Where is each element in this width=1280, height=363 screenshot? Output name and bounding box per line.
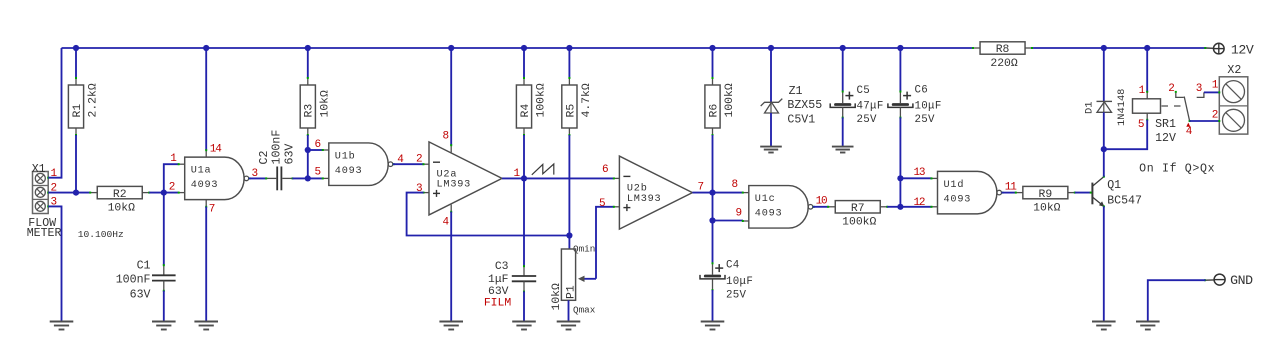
op-amp/comparator U2a LM393: [423, 142, 503, 215]
sawtooth waveform symbol: [532, 164, 554, 175]
svg-text:5: 5: [599, 198, 605, 210]
ground (C5): [832, 147, 854, 153]
wire rail to R4: [523, 48, 525, 78]
ground (Z1): [760, 147, 782, 153]
junction R3 top on rail: [305, 45, 311, 51]
junction R3/U1b pin6: [305, 147, 311, 153]
svg-text:R5: R5: [565, 104, 577, 118]
wire rail to R5: [568, 48, 570, 78]
svg-text:100kΩ: 100kΩ: [842, 217, 876, 229]
wire R6 bottom to node C and node D: [712, 135, 714, 221]
junction R6 top on rail: [709, 45, 715, 51]
svg-text:U1b: U1b: [335, 151, 356, 163]
junction node D (U1c pin9/C4): [709, 217, 715, 223]
wire rail to U2a pin8 (V+): [450, 48, 452, 145]
svg-text:7: 7: [209, 203, 215, 215]
ground (U2a pin4): [439, 322, 463, 330]
wire U1a output to C2: [249, 177, 267, 179]
wire collector node to Q1 collector: [1103, 149, 1105, 176]
svg-text:25V: 25V: [726, 290, 747, 302]
svg-text:2: 2: [1212, 109, 1218, 121]
svg-text:C5V1: C5V1: [787, 114, 815, 127]
svg-text:220Ω: 220Ω: [990, 58, 1018, 70]
svg-text:5: 5: [315, 167, 321, 179]
svg-text:12V: 12V: [1155, 132, 1176, 145]
svg-text:9: 9: [736, 207, 742, 219]
svg-text:R9: R9: [1039, 189, 1053, 201]
wire contact pin3 to X2 pin1: [1204, 91, 1219, 93]
capacitor C5 47uF 25V (electrolytic): [830, 85, 883, 126]
zener diode Z1 BZX55 C5V1: [761, 85, 823, 126]
wire C4 top pin stub: [712, 264, 714, 275]
svg-text:13: 13: [914, 167, 925, 179]
svg-text:2: 2: [1168, 83, 1174, 95]
op-amp/comparator U2b LM393: [613, 156, 693, 229]
wire U2a pin8 stub: [450, 145, 452, 152]
svg-text:BC547: BC547: [1107, 195, 1142, 208]
capacitor C6 10uF 25V (electrolytic): [888, 84, 942, 126]
wire SR1 pin5 to collector node: [1104, 120, 1147, 150]
svg-text:Q1: Q1: [1107, 179, 1121, 192]
wire +12V rail (right section, R8 to 12V terminal): [1032, 47, 1206, 49]
potentiometer P1 10k: [551, 249, 596, 311]
junction SR1 pin1 on rail: [1144, 45, 1150, 51]
svg-text:4093: 4093: [191, 180, 219, 191]
svg-text:25V: 25V: [857, 114, 878, 126]
wire C2 to U1b node: [292, 177, 323, 179]
wire C6 top pin stub: [899, 91, 901, 103]
svg-text:2.2kΩ: 2.2kΩ: [88, 83, 100, 117]
wire U2a pin3 feedback to Qmin node: [407, 193, 570, 236]
junction D1 top on rail: [1101, 45, 1107, 51]
capacitor C2 100nF 63V: [258, 130, 297, 191]
wire GND terminal to ground: [1148, 280, 1206, 321]
wire rail to SR1 coil: [1146, 48, 1148, 92]
connector X1 (FLOW METER): [33, 172, 50, 214]
svg-text:U1c: U1c: [755, 194, 776, 205]
wire C3 bottom pin stub: [523, 281, 525, 291]
svg-text:2: 2: [416, 153, 422, 165]
NAND gate U1b 4093: [322, 143, 395, 186]
wire C5 top pin stub: [842, 91, 844, 103]
ground (GND terminal): [1136, 322, 1160, 330]
NAND gate U1d 4093: [931, 171, 1004, 214]
svg-text:X1: X1: [32, 163, 46, 176]
svg-text:4.7kΩ: 4.7kΩ: [581, 83, 593, 117]
wire U1d output to R9: [1002, 192, 1016, 194]
junction U1a pin14 on rail: [203, 45, 209, 51]
wire C3 top pin stub: [523, 266, 525, 276]
wire +5V rail (left section, from X1 pin 1 riser to R8): [62, 47, 974, 49]
wire Z1 to ground: [770, 113, 772, 146]
wire U2a pin4 stub: [450, 205, 452, 212]
wire R4 bottom to node B: [523, 135, 525, 178]
capacitor C3 1uF 63V FILM: [484, 261, 536, 310]
svg-text:10kΩ: 10kΩ: [319, 90, 331, 118]
ground (P1): [557, 322, 581, 330]
svg-text:FILM: FILM: [484, 298, 512, 310]
svg-text:Qmax: Qmax: [573, 305, 596, 316]
wire rail to U1a pin14: [205, 48, 207, 150]
wire C1 bottom pin stub: [163, 281, 165, 291]
diode D1 1N4148: [1084, 89, 1129, 126]
svg-text:4093: 4093: [335, 166, 363, 177]
svg-text:12: 12: [914, 197, 925, 209]
svg-text:4093: 4093: [755, 209, 783, 220]
resistor R4 100k: [516, 77, 547, 136]
svg-text:C4: C4: [726, 260, 740, 272]
resistor R2 10k: [89, 186, 150, 214]
ground (C3): [512, 322, 536, 330]
svg-text:R4: R4: [520, 104, 532, 118]
svg-text:100nF: 100nF: [271, 130, 284, 165]
junction R4 top on rail: [521, 45, 527, 51]
wire R7 to node E: [887, 206, 900, 208]
junction node A (R2/C1/U1a pins): [161, 190, 167, 196]
wire rail to C5: [842, 48, 844, 91]
wire U1a pin14 stub: [205, 150, 207, 157]
wire X1 pin2 to R2/junction: [48, 192, 90, 194]
terminal +12V: [1204, 42, 1254, 57]
wire node D down to C4: [712, 221, 714, 264]
wire U1c output to R7: [813, 206, 829, 208]
wire node A down to C1: [163, 193, 165, 266]
svg-text:8: 8: [732, 179, 738, 191]
junction R1 top on rail: [73, 45, 79, 51]
wire R2 right to node A: [149, 192, 179, 194]
svg-text:2: 2: [169, 181, 175, 193]
terminal GND: [1204, 273, 1253, 288]
ground (C1): [152, 322, 176, 330]
svg-text:10μF: 10μF: [726, 276, 753, 288]
wire rail to D1: [1103, 48, 1105, 101]
junction C5 top on rail: [840, 45, 846, 51]
svg-text:R6: R6: [708, 104, 720, 118]
svg-text:P1: P1: [566, 285, 578, 299]
svg-text:10kΩ: 10kΩ: [551, 283, 563, 311]
junction node E (R7/U1d pin12): [897, 204, 903, 210]
junction node B (U2a out/R4/C3): [521, 175, 527, 181]
junction C6 top on rail: [897, 45, 903, 51]
relay contact SR1 (SPST): [1162, 91, 1204, 122]
wire U2a output to node B: [502, 177, 614, 179]
junction R5 top on rail: [566, 45, 572, 51]
wire node A up to U1a pin1: [164, 164, 179, 192]
svg-text:R8: R8: [996, 44, 1010, 56]
svg-text:Qmin: Qmin: [573, 244, 595, 255]
wire junction to U1d pin13: [900, 177, 931, 179]
svg-text:10: 10: [816, 196, 827, 208]
svg-text:6: 6: [315, 139, 321, 151]
wire X1 pin3 to ground: [48, 206, 61, 321]
wire C6 down through node E rows: [899, 117, 901, 206]
ground (Q1 emitter): [1092, 322, 1116, 330]
svg-text:C2: C2: [258, 151, 271, 165]
wire C1 top pin stub: [163, 265, 165, 275]
resistor R5 4.7k: [562, 77, 593, 136]
svg-text:U1a: U1a: [191, 166, 212, 177]
svg-text:12V: 12V: [1231, 42, 1254, 57]
wire C4 bottom pin stub: [712, 279, 714, 290]
wire C4 to ground: [712, 290, 714, 322]
svg-text:6: 6: [602, 164, 608, 176]
wire P1 bottom to ground: [568, 300, 570, 321]
wire rail to Z1: [770, 48, 772, 102]
resistor R8 220R (in rail): [972, 42, 1033, 70]
junction R1/R2/X1 pin2: [73, 190, 79, 196]
wire SR1 coil top pin stub: [1146, 92, 1148, 99]
junction collector node (D1/SR1 pin5/Q1-C): [1101, 146, 1107, 152]
svg-text:63V: 63V: [283, 144, 296, 165]
capacitor C4 10uF 25V (electrolytic): [700, 260, 753, 302]
svg-text:R2: R2: [113, 189, 127, 201]
ground (U1a pin7): [194, 322, 218, 330]
junction Z1 top on rail: [768, 45, 774, 51]
resistor R6 100k: [705, 77, 736, 136]
svg-text:5: 5: [1138, 119, 1144, 131]
capacitor C1 100nF: [116, 260, 176, 302]
svg-text:C6: C6: [915, 84, 929, 96]
wire R3 bottom through U1b input junctions: [307, 135, 309, 178]
wire C5 to ground: [842, 117, 844, 146]
NAND gate U1c 4093: [742, 186, 815, 229]
wire C2 left pin stub: [266, 177, 276, 179]
svg-text:10.100Hz: 10.100Hz: [78, 229, 124, 240]
wire U2b output to node C: [692, 192, 743, 194]
svg-text:25V: 25V: [915, 114, 936, 126]
junction C2/U1b pin5: [305, 175, 311, 181]
svg-text:GND: GND: [1230, 273, 1253, 288]
svg-text:3: 3: [1196, 83, 1202, 95]
wire R1 bottom to signal junction: [75, 135, 77, 193]
svg-text:X2: X2: [1227, 64, 1241, 77]
wire rail to R6: [712, 48, 714, 78]
ground (X1 pin3): [50, 322, 74, 330]
svg-text:LM393: LM393: [437, 180, 472, 191]
wire C6 bottom pin stub: [899, 107, 901, 117]
wire C3 to ground: [523, 291, 525, 321]
svg-text:47μF: 47μF: [857, 101, 884, 113]
resistor R1 2.2k: [68, 77, 99, 136]
svg-text:SR1: SR1: [1155, 118, 1176, 131]
svg-text:R3: R3: [304, 104, 316, 118]
NAND gate U1a 4093: [178, 157, 251, 200]
wire D1 to collector node: [1103, 112, 1105, 149]
wire P1 wiper to U2b pin5: [596, 207, 614, 279]
relay coil SR1 12V: [1133, 99, 1177, 145]
junction node C (U2b out/U1c pin8/R6): [709, 190, 715, 196]
svg-text:100nF: 100nF: [116, 273, 151, 286]
svg-text:R7: R7: [851, 203, 865, 215]
resistor R7 100k: [827, 201, 888, 229]
wire node D to U1c pin9: [713, 220, 744, 222]
wire rail to R3: [307, 48, 309, 78]
ground (C4): [701, 322, 725, 330]
wire C5 bottom pin stub: [842, 107, 844, 117]
svg-text:1μF: 1μF: [488, 274, 509, 286]
wire SR1 coil bottom pin stub: [1146, 113, 1148, 119]
svg-text:1N4148: 1N4148: [1116, 89, 1128, 126]
junction U2a pin8 on rail: [448, 45, 454, 51]
wire X1 pin1 to +5V rail: [48, 48, 61, 178]
wire rail to C6: [899, 48, 901, 91]
svg-text:Z1: Z1: [789, 85, 803, 98]
svg-text:100kΩ: 100kΩ: [536, 83, 548, 117]
wire node B down to C3: [523, 178, 525, 266]
wire junction to U1b pin6: [308, 149, 323, 151]
wire R5 bottom to Qmin node (crosses signal): [568, 135, 570, 249]
svg-text:63V: 63V: [488, 286, 509, 298]
resistor R3 10k: [300, 77, 331, 136]
svg-text:METER: METER: [27, 227, 62, 240]
wire C2 right pin stub: [282, 177, 292, 179]
svg-text:10μF: 10μF: [915, 101, 942, 113]
wire rail to R1: [75, 48, 77, 78]
svg-text:14: 14: [210, 143, 222, 155]
wire Q1 emitter to ground: [1103, 206, 1105, 321]
svg-text:U2b: U2b: [627, 183, 648, 195]
junction Qmin node (R5/P1/feedback): [566, 232, 572, 238]
wire contact pin4 to X2 pin2: [1190, 120, 1220, 122]
svg-text:R1: R1: [72, 104, 84, 118]
svg-text:100kΩ: 100kΩ: [724, 83, 736, 117]
wire U1b output to U2a inverting input: [393, 163, 424, 165]
wire C1 to ground: [163, 291, 165, 322]
wire node E to U1d pin12: [900, 206, 931, 208]
pin number SR1-4: [1186, 123, 1190, 127]
wire R9 to Q1 base: [1075, 192, 1091, 194]
svg-text:BZX55: BZX55: [787, 99, 822, 112]
svg-text:LM393: LM393: [627, 194, 662, 205]
svg-text:C3: C3: [495, 261, 509, 273]
svg-text:C5: C5: [857, 85, 871, 97]
transistor Q1 BC547 (NPN): [1090, 176, 1142, 208]
svg-text:10kΩ: 10kΩ: [108, 202, 136, 214]
connector X2: [1218, 77, 1248, 134]
junction C6/U1d pin13: [897, 175, 903, 181]
svg-text:63V: 63V: [130, 288, 151, 301]
svg-text:8: 8: [443, 131, 449, 143]
wire U2a pin4 (V-) to ground: [450, 212, 452, 322]
wire U1a pin7 stub: [205, 200, 207, 207]
wire U1a pin7 to ground: [205, 207, 207, 322]
resistor R9 10k: [1015, 186, 1076, 214]
svg-text:10kΩ: 10kΩ: [1033, 202, 1061, 214]
svg-text:On If Q>Qx: On If Q>Qx: [1139, 162, 1215, 175]
svg-text:U1d: U1d: [944, 179, 965, 191]
svg-text:4093: 4093: [944, 194, 972, 205]
svg-text:C1: C1: [137, 260, 151, 273]
svg-text:D1: D1: [1084, 102, 1096, 114]
